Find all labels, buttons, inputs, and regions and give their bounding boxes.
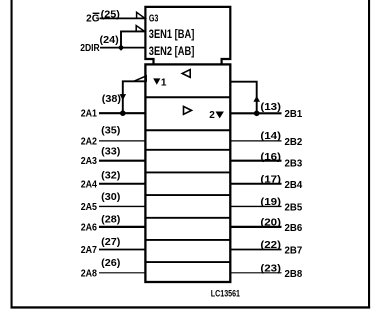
amplifier symbol on 3EN1 input (136, 26, 144, 32)
svg-text:(38): (38) (102, 94, 121, 105)
wire 2B3 (230, 160, 282, 162)
svg-text:LC13561: LC13561 (211, 289, 240, 299)
wire 2A7 (99, 249, 147, 251)
symbol A-to-B amplifier (right-pointing triangle) (184, 106, 192, 114)
svg-text:2B3: 2B3 (285, 157, 303, 169)
wire 2B2 (230, 140, 282, 142)
svg-text:2A1: 2A1 (81, 108, 97, 120)
divider channel 1 / channel 2 (145, 129, 230, 131)
svg-text:(28): (28) (101, 214, 120, 225)
svg-text:2B6: 2B6 (285, 222, 303, 234)
divider channel 3 / channel 4 (145, 171, 230, 173)
wire 2A6 (99, 226, 147, 228)
svg-text:3EN1 [BA]: 3EN1 [BA] (149, 29, 195, 41)
divider channel 6 / channel 7 (145, 239, 230, 241)
svg-text:2B1: 2B1 (285, 108, 303, 120)
pin 2G label (active low) (86, 13, 100, 25)
wire 2A5 (99, 205, 147, 207)
svg-text:G3: G3 (149, 13, 159, 24)
svg-text:(14): (14) (260, 131, 281, 142)
wire 2A2 (99, 140, 147, 142)
svg-text:2A3: 2A3 (81, 155, 97, 167)
symbol tri-state output V1 (153, 77, 167, 88)
frame right edge (368, 0, 370, 308)
channel 1 internal divider (145, 96, 230, 98)
wire 2A8 (99, 272, 147, 274)
svg-text:(13): (13) (260, 102, 281, 113)
svg-text:2B4: 2B4 (285, 179, 303, 191)
svg-text:(35): (35) (101, 126, 120, 137)
junction dot on 2B1 line (254, 111, 260, 117)
junction dot on 2A1 line (120, 110, 126, 116)
divider channel 4 / channel 5 (145, 194, 230, 196)
amplifier symbol on channel 1 B-to-A path (134, 76, 146, 81)
svg-text:(24): (24) (100, 35, 119, 46)
arrow pointing down toward 2A1 line (120, 94, 127, 100)
wire 2B1 (230, 112, 282, 114)
svg-text:2G: 2G (86, 14, 100, 25)
symbol B-to-A amplifier (left-pointing triangle) (182, 70, 190, 78)
svg-text:2: 2 (209, 110, 215, 121)
svg-text:2A6: 2A6 (81, 221, 97, 233)
wire 2B7 (230, 249, 282, 251)
divider channel 2 / channel 3 (145, 149, 230, 151)
svg-text:(30): (30) (101, 192, 120, 203)
wire channel 1 branch to 2B1 (B-to-A input path) (230, 82, 256, 114)
frame bottom edge (11, 306, 371, 308)
wire 2A3 (99, 160, 147, 162)
wire 2DIR to 3EN2 input (100, 47, 146, 49)
svg-text:2B8: 2B8 (285, 268, 303, 280)
symbol tri-state output 2V (209, 110, 224, 121)
svg-text:1: 1 (161, 77, 167, 88)
svg-text:2A2: 2A2 (81, 135, 97, 147)
amplifier symbol on G3 input (137, 12, 145, 18)
common control block U1 outline (145, 7, 230, 64)
divider channel 5 / channel 6 (145, 217, 230, 219)
junction on 2DIR wire (118, 44, 124, 50)
wire 2A4 (99, 183, 147, 185)
wire 2A1 (99, 112, 147, 114)
wire 2B4 (230, 183, 282, 185)
svg-text:2A4: 2A4 (81, 178, 97, 190)
svg-text:2A7: 2A7 (81, 244, 97, 256)
divider channel 7 / channel 8 (145, 261, 230, 263)
svg-text:(33): (33) (101, 147, 120, 158)
svg-text:2A5: 2A5 (81, 201, 97, 213)
arrow pointing up toward B-to-A amplifier (253, 96, 260, 102)
wire 2B5 (230, 205, 282, 207)
frame left edge (11, 0, 13, 308)
svg-text:2B2: 2B2 (285, 136, 303, 148)
wire 2G to G3 input (100, 17, 146, 19)
svg-text:(32): (32) (101, 170, 120, 181)
svg-text:(26): (26) (101, 258, 120, 269)
wire 2B6 (230, 226, 282, 228)
svg-text:2B5: 2B5 (285, 201, 303, 213)
svg-text:(27): (27) (101, 237, 120, 248)
svg-text:2DIR: 2DIR (80, 43, 100, 54)
wire channel 1 branch to 2A1 (B-to-A output path) (123, 81, 146, 113)
main transceiver array block (145, 64, 230, 282)
wire 2B8 (230, 272, 282, 274)
svg-text:2A8: 2A8 (81, 267, 97, 279)
svg-text:3EN2 [AB]: 3EN2 [AB] (149, 46, 195, 58)
wire 2DIR branch to 3EN1 input (121, 31, 146, 47)
svg-text:2B7: 2B7 (285, 245, 303, 257)
